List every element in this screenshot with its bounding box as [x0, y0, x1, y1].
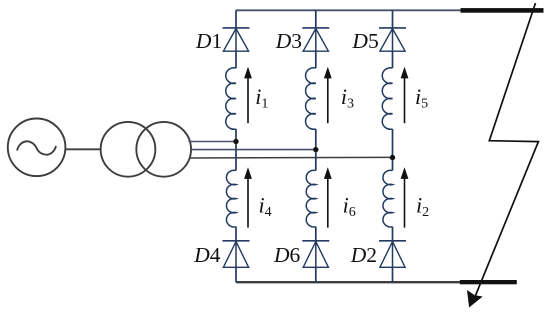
svg-text:D6: D6	[273, 243, 301, 267]
svg-text:D3: D3	[275, 29, 302, 53]
current arrow i4	[247, 177, 249, 227]
node phase 1 junction	[233, 139, 238, 144]
diode D3	[302, 28, 329, 51]
fault lightning-bolt arrow	[467, 3, 538, 308]
inductor lower leg 5	[383, 170, 393, 227]
wire phase a	[189, 141, 237, 143]
inductor lower leg 3	[306, 170, 316, 227]
inductor lower leg 1	[226, 170, 236, 227]
inductor upper leg 5	[382, 68, 392, 130]
wire leg 1: lower coil to bottom bus	[235, 227, 237, 283]
wire leg 5: lower coil to bottom bus	[392, 227, 394, 283]
transformer T1	[101, 122, 191, 177]
wire top DC bus	[236, 9, 461, 11]
diode D2	[379, 241, 406, 267]
diode D4	[223, 241, 250, 267]
current arrow i6	[327, 177, 329, 227]
diode D6	[302, 241, 329, 267]
wire source to transformer	[65, 148, 101, 150]
current arrow i2	[404, 177, 406, 227]
wire leg 5: top bus to upper coil	[392, 10, 394, 68]
AC source G1	[8, 119, 66, 177]
bottom busbar	[460, 280, 517, 284]
wire leg 3: top bus to upper coil	[315, 10, 317, 68]
svg-text:D1: D1	[195, 29, 222, 53]
node phase 5 junction	[390, 155, 395, 160]
wire bottom DC bus	[236, 281, 461, 283]
svg-text:D5: D5	[351, 29, 378, 53]
current arrow i1	[247, 77, 249, 123]
wire phase c	[189, 156, 393, 159]
svg-text:D2: D2	[350, 243, 377, 267]
svg-text:D4: D4	[193, 243, 221, 267]
diode D5	[379, 28, 406, 51]
wire leg 1: upper coil to lower coil through phase node	[235, 129, 237, 171]
node phase 3 junction	[313, 147, 318, 152]
inductor upper leg 1	[226, 68, 236, 130]
wire phase b	[191, 149, 316, 151]
diode D1	[223, 28, 250, 51]
wire leg 3: upper coil to lower coil through phase node	[315, 129, 317, 171]
inductor upper leg 3	[306, 68, 316, 130]
current arrow i3	[327, 77, 329, 123]
wire leg 3: lower coil to bottom bus	[315, 227, 317, 283]
top busbar	[461, 8, 544, 13]
current arrow i5	[404, 77, 406, 123]
wire leg 1: top bus to upper coil	[235, 10, 237, 68]
wire leg 5: upper coil to lower coil through phase node	[392, 129, 394, 171]
